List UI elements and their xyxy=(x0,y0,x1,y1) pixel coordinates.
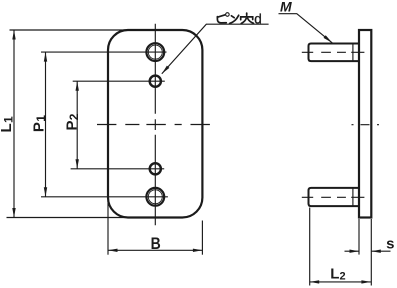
svg-text:L1: L1 xyxy=(0,116,16,132)
svg-text:M: M xyxy=(280,0,292,15)
svg-text:P2: P2 xyxy=(63,113,81,130)
svg-text:B: B xyxy=(151,235,161,253)
svg-text:d: d xyxy=(254,12,262,27)
svg-text:s: s xyxy=(386,236,394,253)
svg-text:P1: P1 xyxy=(31,115,49,132)
